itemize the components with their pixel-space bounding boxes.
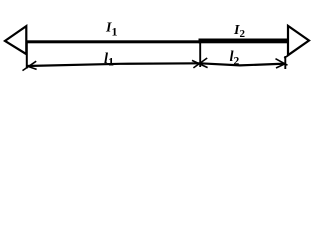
right arrowhead (current direction at right end)	[288, 26, 309, 55]
svg-text:l1: l1	[104, 51, 114, 68]
svg-text:l2: l2	[230, 49, 240, 68]
svg-text:I2: I2	[233, 23, 245, 40]
wire: thin conductor segment carrying I1	[26, 40, 200, 43]
svg-text:I1: I1	[105, 21, 117, 39]
extension line left	[26, 43, 28, 69]
dimension arrows meeting at junction	[192, 58, 208, 68]
left arrowhead (current direction at left end)	[5, 26, 26, 54]
dimension line l2 span	[200, 63, 285, 65]
wire: thick conductor segment carrying I2	[199, 39, 290, 44]
dimension line l1 span	[27, 63, 200, 66]
overshoot of right arrowhead lower edge	[284, 55, 288, 58]
dimension arrow at right end (points right)	[276, 59, 288, 68]
dimension arrow at left end (points left)	[23, 61, 37, 70]
extension line right	[284, 56, 286, 69]
extension line at junction	[199, 43, 201, 67]
